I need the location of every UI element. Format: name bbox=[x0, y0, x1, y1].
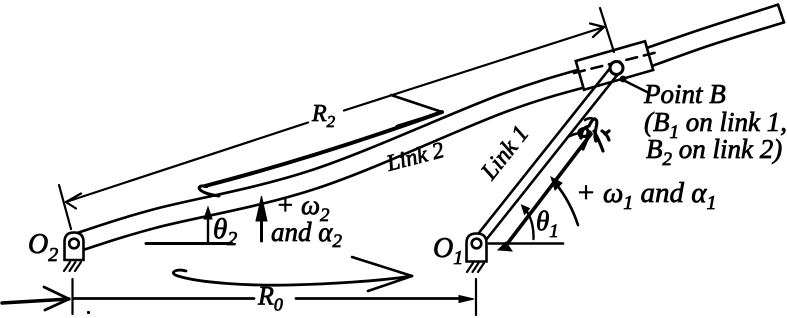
link 2 (bar from O2 through slider to top right) bbox=[77, 5, 784, 250]
R0 dimension line bbox=[74, 297, 462, 300]
node: small speck below R0 line bbox=[87, 311, 90, 314]
omega2 arrow (vertical bold) bbox=[260, 220, 263, 241]
wire: dashed slider centerline bbox=[574, 53, 656, 74]
link 1 (bar from O1 to B) bbox=[474, 65, 620, 245]
dimension R2 extension line at O2 bbox=[59, 185, 71, 229]
theta2 angle arrow (vertical) bbox=[207, 218, 209, 242]
handwritten omega1 scribble bbox=[579, 119, 609, 151]
O1 pin circle bbox=[472, 239, 482, 249]
O2 pin bracket bbox=[65, 233, 84, 261]
svg-text:θ1: θ1 bbox=[536, 206, 559, 242]
node B leader dot bbox=[620, 76, 627, 83]
svg-text:θ2: θ2 bbox=[213, 213, 237, 250]
svg-text:O2: O2 bbox=[28, 229, 58, 266]
ground hatching at O2 bbox=[64, 262, 81, 271]
wire: leader line to Point B text bbox=[625, 81, 649, 93]
R0 right tick bbox=[475, 279, 477, 315]
svg-text:B2 on link 2): B2 on link 2) bbox=[646, 134, 782, 170]
svg-text:R2: R2 bbox=[311, 101, 336, 131]
svg-text:and α2: and α2 bbox=[271, 217, 342, 252]
big curved rotation arrow above R0 bbox=[173, 270, 412, 285]
R0 dimension: big left arrow bbox=[2, 299, 69, 303]
wire: theta1 horizontal reference line bbox=[489, 242, 563, 245]
arrowhead of heavy vector bbox=[391, 95, 442, 126]
ground hatching at O1 bbox=[467, 263, 484, 272]
O1 pin bracket bbox=[467, 234, 487, 262]
svg-text:Link 2: Link 2 bbox=[383, 137, 447, 176]
svg-text:O1: O1 bbox=[433, 233, 463, 269]
dimension R2 extension line at B bbox=[600, 8, 614, 52]
omega1 rotation arc arrow bbox=[556, 184, 578, 225]
R0 right arrowhead bbox=[459, 296, 474, 303]
pin joint at point B bbox=[610, 62, 623, 75]
theta1 angle arc bbox=[525, 208, 534, 239]
heavy vector arrow along link 2 bbox=[199, 112, 442, 196]
svg-text:+ ω1 and α1: + ω1 and α1 bbox=[576, 177, 717, 214]
dimension R2 line bbox=[66, 24, 604, 209]
bold line along link 1 with tail arrowhead bbox=[504, 134, 591, 248]
svg-text:Point B: Point B bbox=[643, 79, 726, 109]
wire: theta2 horizontal reference line bbox=[146, 242, 232, 245]
slider block at point B bbox=[576, 41, 653, 90]
R0 left tick bbox=[71, 279, 73, 314]
O2 pin circle bbox=[69, 239, 79, 249]
